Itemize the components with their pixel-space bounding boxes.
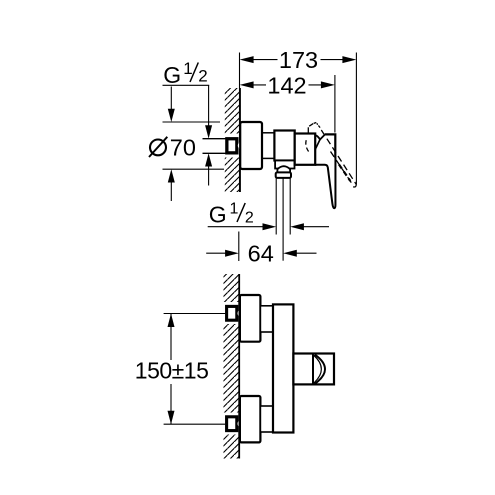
dimension 64 right line with left-pointing arrow xyxy=(296,252,317,254)
top connector xyxy=(260,306,273,332)
dimension 150±15 up arrow xyxy=(168,314,175,328)
svg-text:1: 1 xyxy=(183,59,192,78)
top union ball notch xyxy=(238,310,243,316)
diameter 70 arrow up to escutcheon bottom xyxy=(170,178,172,201)
mixer body xyxy=(274,131,294,161)
dimension 150±15 bottom extension line xyxy=(164,423,226,425)
outlet assembly xyxy=(293,354,334,385)
svg-text:G: G xyxy=(163,62,181,88)
neck between escutcheon and body xyxy=(262,132,275,134)
dimension 142 right arrow xyxy=(321,81,335,88)
wall face line redraw over notches xyxy=(239,306,241,321)
body plate xyxy=(273,304,293,432)
lever knuckle sail xyxy=(315,135,325,140)
dimension 173 left arrow xyxy=(240,56,254,63)
wall hatching between unions xyxy=(224,324,240,413)
wall hatching below inlet xyxy=(225,158,240,193)
top escutcheon block xyxy=(240,295,261,342)
dimension 150±15 top extension line xyxy=(164,313,226,315)
phantom raised lever knob corner dash xyxy=(316,123,319,125)
dimension 150±15 vertical line xyxy=(170,314,172,361)
svg-text:1: 1 xyxy=(230,201,239,218)
outlet dome xyxy=(277,166,290,172)
G 1/2 bottom dim line right with left-pointing arrow xyxy=(303,226,330,228)
svg-text:64: 64 xyxy=(248,241,274,267)
dimension 150±15 down arrow xyxy=(168,411,175,425)
wall hatching above inlet xyxy=(225,88,240,134)
bottom union ball notch xyxy=(238,421,243,427)
outlet nut outer arc xyxy=(315,355,325,384)
top union nut (bottom figure) xyxy=(227,306,237,320)
escutcheon (side view) xyxy=(240,122,262,169)
svg-text:G: G xyxy=(209,202,227,228)
phantom raised lever knob right dash xyxy=(318,126,320,128)
dimension 173 right arrow xyxy=(342,56,356,63)
dimension 173 line xyxy=(248,59,348,61)
lever cap xyxy=(325,134,336,158)
phantom raised lever top edge (dashed) xyxy=(321,130,356,184)
wall face line with extension up to dim 173 xyxy=(239,53,241,193)
dimension 64 left extension line (wall) xyxy=(238,232,240,262)
wall face line over ball notch xyxy=(239,140,241,152)
dimension 142 left arrow xyxy=(240,81,254,88)
phantom raised lever knob top dash xyxy=(314,122,317,125)
cartridge ring xyxy=(295,134,316,165)
inlet ball end notch xyxy=(238,142,244,150)
dimension 142 right extension line xyxy=(334,75,336,133)
bottom connector xyxy=(260,406,273,432)
dimension 173 right extension line xyxy=(355,53,357,185)
phantom raised lever thick segment (dashed) xyxy=(339,165,350,182)
outlet nut divider xyxy=(312,354,314,384)
phantom raised lever tip hook (dashed) xyxy=(353,184,356,187)
diameter 70 text xyxy=(150,140,166,156)
G 1/2 top arrow up to pipe bottom xyxy=(208,161,210,186)
bottom union nut (bottom figure) xyxy=(227,417,237,431)
dimension 142 line xyxy=(248,84,327,86)
lever blade xyxy=(315,158,335,209)
G 1/2 bottom fraction slash xyxy=(237,203,245,222)
G 1/2 top leader underline xyxy=(163,84,210,86)
inlet union nut in wall xyxy=(227,139,237,153)
svg-text:2: 2 xyxy=(245,210,254,227)
phantom raised lever arc (dashed) xyxy=(306,140,310,152)
phantom raised lever knob upper-left dash xyxy=(309,124,313,127)
G 1/2 top arrow down to pipe top xyxy=(208,85,210,130)
G 1/2 bottom dim line left with right-pointing arrow xyxy=(208,226,264,228)
inlet pipe stub through wall xyxy=(203,138,228,140)
diameter 70 arrow down to escutcheon top xyxy=(170,87,172,114)
diameter 70 bottom extension line xyxy=(163,168,225,170)
bottom escutcheon block xyxy=(240,396,261,442)
svg-text:142: 142 xyxy=(267,72,306,98)
phantom raised lever knob left dash xyxy=(307,127,309,133)
svg-text:173: 173 xyxy=(279,47,318,73)
wall hatching below bottom union xyxy=(224,435,240,459)
wall face line (bottom figure) xyxy=(238,274,240,459)
lever knuckle lower edge xyxy=(315,140,320,150)
wall hatching above top union xyxy=(224,274,240,302)
diameter 70 top extension line xyxy=(163,121,221,123)
outlet pipe wall lines and centre line xyxy=(275,178,277,235)
phantom raised lever bottom edge (dashed) xyxy=(331,152,353,185)
outlet boss under body xyxy=(275,161,294,169)
outlet nut xyxy=(276,172,291,178)
svg-text:2: 2 xyxy=(198,67,207,86)
dimension 64 left line with right-pointing arrow xyxy=(206,252,226,254)
svg-text:70: 70 xyxy=(170,135,196,161)
svg-text:150±15: 150±15 xyxy=(135,357,209,383)
outlet nut inner arc xyxy=(313,355,321,383)
G 1/2 top fraction slash xyxy=(190,63,198,83)
